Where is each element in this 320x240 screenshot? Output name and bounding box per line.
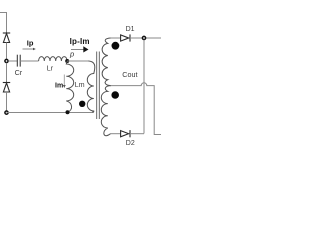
wire bottom rail [7, 112, 94, 114]
arrow Im down [63, 75, 66, 89]
wire output rail vertical [143, 40, 145, 134]
transformer secondary top winding [102, 38, 111, 86]
polarity dot secondary top [112, 42, 120, 50]
transformer secondary bottom winding [101, 86, 111, 136]
inductor Lr [39, 57, 68, 61]
svg-text:Ip: Ip [27, 38, 34, 47]
capacitor Cr [17, 55, 20, 67]
diode D1 [121, 34, 130, 41]
diode D3 left-upper pointing up [3, 33, 10, 43]
svg-text:Cout: Cout [122, 70, 137, 79]
svg-text:Ip-Im: Ip-Im [70, 37, 90, 46]
wire left rail bottom [6, 92, 8, 111]
arrow Ip [23, 48, 36, 51]
wire node p to primary [67, 60, 89, 62]
node B junction [5, 111, 8, 114]
inductor Lm magnetizing [66, 61, 73, 112]
wire node A to Cr [8, 60, 17, 62]
wire secondary top to D1 [111, 37, 121, 39]
transformer core [97, 52, 100, 120]
diode D2 [121, 130, 130, 137]
node A junction [5, 59, 8, 62]
svg-text:Lm: Lm [75, 82, 85, 89]
node p dot [65, 59, 69, 63]
wire secondary bottom to D2 [111, 133, 121, 135]
wire center tap with hop over output rail [111, 83, 162, 135]
wire left rail upper-mid [6, 43, 8, 60]
wire D1 to output node [130, 37, 161, 39]
wire left rail lower-mid [6, 63, 8, 83]
transformer primary winding [87, 61, 95, 112]
svg-text:D1: D1 [126, 26, 135, 33]
svg-text:Im: Im [55, 82, 63, 89]
wire D2 to output rail [130, 133, 144, 135]
node output junction [142, 36, 145, 39]
svg-text:p: p [69, 50, 74, 59]
svg-text:D2: D2 [126, 140, 135, 147]
polarity dot secondary bottom [111, 91, 119, 99]
arrow Ip-Im [71, 46, 89, 52]
wire Cr to Lr [20, 60, 38, 62]
polarity dot primary [79, 101, 85, 107]
wire top input [0, 13, 7, 34]
svg-text:Cr: Cr [15, 68, 23, 77]
node Lm bottom dot [66, 110, 70, 114]
svg-text:Lr: Lr [47, 64, 54, 73]
diode D4 left-lower pointing up [3, 83, 10, 93]
